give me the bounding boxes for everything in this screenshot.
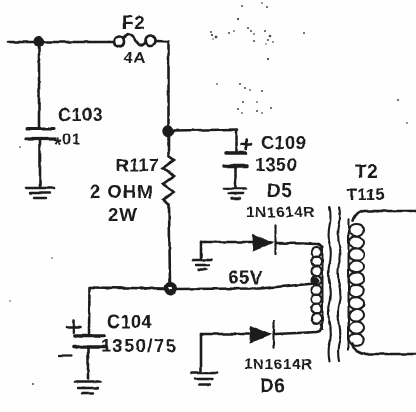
node A (input junction) — [35, 37, 43, 45]
transformer T2 primary bottom bracket — [308, 324, 322, 333]
label T2 — [355, 162, 378, 183]
label 2 OHM (R117 value) — [90, 181, 154, 202]
node D (65V tap on primary) — [312, 278, 318, 284]
svg-text:1350/75: 1350/75 — [101, 336, 177, 356]
node C (R117 / C104 / 65V junction) — [165, 283, 175, 293]
transformer T2 primary top bracket — [303, 244, 322, 250]
svg-text:01: 01 — [63, 132, 82, 149]
ground (C109) — [224, 189, 246, 199]
fuse F2 — [114, 35, 156, 47]
label 65V (net voltage) — [228, 268, 263, 289]
label D5 — [267, 181, 292, 202]
ground (D5 branch) — [193, 260, 212, 270]
capacitor C104 plus sign — [67, 321, 81, 334]
transformer T2 secondary top bracket and wire — [353, 211, 416, 221]
capacitor C109 — [224, 153, 247, 187]
label C103 — [58, 105, 103, 125]
svg-text:C109: C109 — [261, 133, 306, 153]
transformer T2 primary winding — [312, 246, 323, 329]
svg-text:1N1614R: 1N1614R — [244, 356, 313, 373]
diode D5 — [253, 226, 276, 254]
svg-text:4A: 4A — [124, 50, 146, 67]
wire: D5 anode branch — [201, 241, 252, 244]
wire: top input rail — [8, 41, 113, 44]
wire: vertical from fuse down to node B — [167, 43, 170, 128]
wire: D6 branch drop to ground — [200, 334, 203, 371]
svg-text:*: * — [54, 135, 62, 156]
transformer T2 secondary bottom bracket and wire — [353, 344, 416, 354]
label 1350/75 (C104 value) — [101, 336, 177, 356]
wire: node B to C109 — [172, 130, 237, 152]
label .01 (C103 value) — [54, 132, 81, 157]
label T115 — [347, 186, 385, 204]
ground (D6 branch) — [191, 373, 217, 385]
wire: D5 branch drop to ground — [200, 242, 203, 258]
transformer T2 secondary winding — [349, 219, 365, 350]
svg-text:R117: R117 — [116, 155, 159, 175]
diode D6 — [251, 321, 274, 348]
svg-text:T2: T2 — [355, 162, 378, 183]
wire: D6 anode branch — [201, 333, 249, 336]
svg-text:T115: T115 — [347, 186, 385, 204]
wire: 65V net, node C to transformer center tap — [174, 284, 314, 290]
svg-text:D5: D5 — [267, 181, 292, 202]
label 2W (R117 rating) — [108, 204, 138, 225]
svg-text:D6: D6 — [260, 376, 285, 397]
capacitor C109 plus sign — [242, 140, 252, 150]
svg-text:1N1614R: 1N1614R — [246, 204, 315, 221]
svg-text:2W: 2W — [108, 204, 138, 225]
ground (C103) — [26, 188, 54, 198]
svg-text:C104: C104 — [107, 312, 152, 332]
label C109 — [261, 133, 306, 153]
label 1N1614R (D5 type) — [246, 204, 315, 221]
wire: D6 cathode to transformer — [275, 333, 308, 335]
label 1N1614R (D6 type) — [244, 356, 313, 373]
capacitor C104 — [59, 288, 105, 380]
label 1350 (C109 value) — [255, 155, 297, 175]
svg-text:C103: C103 — [58, 105, 103, 125]
transformer T2 core — [328, 207, 340, 361]
svg-text:F2: F2 — [122, 13, 145, 34]
node B (R117 / C109 junction) — [164, 127, 173, 136]
resistor R117 — [163, 135, 174, 285]
label R117 — [116, 155, 159, 175]
label D6 — [260, 376, 285, 397]
svg-text:1350: 1350 — [255, 155, 297, 175]
label F2 — [122, 13, 145, 34]
label 4A — [124, 50, 146, 67]
wire: D5 cathode to transformer — [277, 242, 303, 245]
svg-text:2 OHM: 2 OHM — [90, 181, 154, 202]
label C104 — [107, 312, 152, 332]
wire: fuse to corner — [156, 40, 169, 43]
svg-text:65V: 65V — [228, 268, 263, 289]
ground (C104) — [75, 382, 101, 393]
wire: node C left to C104 — [90, 288, 167, 289]
capacitor C103 — [26, 45, 55, 186]
